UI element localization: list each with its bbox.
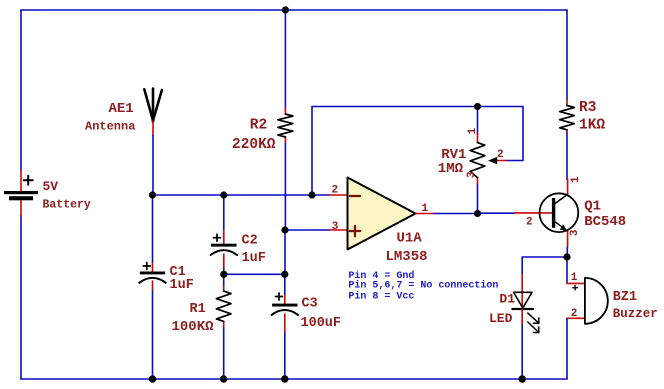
capacitor C3 wires: [284, 274, 286, 379]
resistor R1 pin stubs: [223, 286, 225, 327]
node C2 bottom junction: [220, 271, 227, 278]
op-amp pin 3 stub: [330, 229, 348, 231]
transistor Q1 emitter arrow: [560, 224, 567, 230]
svg-text:U1A: U1A: [397, 231, 423, 247]
svg-text:1uF: 1uF: [170, 278, 194, 293]
wire R2 column top: [284, 10, 286, 108]
transistor Q1 base bar: [552, 198, 555, 228]
svg-text:100uF: 100uF: [301, 316, 342, 331]
svg-text:1: 1: [467, 127, 479, 134]
Q1 emitter pin stub: [567, 231, 569, 247]
capacitor C3 plus: [276, 293, 283, 300]
node output junction: [474, 210, 481, 217]
node RV1 top junction: [474, 103, 481, 110]
op-amp pin 2 stub: [330, 194, 348, 196]
svg-text:C2: C2: [242, 234, 258, 249]
LED D1 emission arrow 1: [528, 313, 539, 323]
wire feedback horizontal y=106.5: [312, 106, 478, 108]
potentiometer RV1 zigzag: [470, 143, 485, 178]
BZ1 pin 2 stub: [567, 317, 585, 319]
resistor R1 zigzag: [216, 291, 231, 321]
node C3 top junction: [281, 271, 288, 278]
svg-text:Pin 5,6,7 = No connection: Pin 5,6,7 = No connection: [348, 280, 498, 292]
svg-text:3: 3: [332, 221, 339, 233]
wire noninverting input y=230: [285, 229, 330, 231]
transistor Q1 collector line: [555, 194, 568, 203]
wire node to Q1 base: [478, 212, 515, 214]
Q1 collector pin stub: [567, 179, 569, 194]
node R2/C3 pin3 junction: [281, 226, 288, 233]
svg-text:2: 2: [571, 308, 578, 320]
wire bottom rail: [21, 378, 567, 380]
wire output to node: [434, 213, 478, 215]
capacitor C2 symbol: [211, 244, 236, 247]
node emitter junction: [563, 253, 570, 260]
svg-text:2: 2: [526, 216, 533, 228]
svg-text:5V: 5V: [43, 179, 59, 194]
antenna AE1 symbol: [144, 89, 162, 122]
buzzer BZ1 body: [585, 278, 608, 324]
capacitor C1 plus: [143, 263, 150, 270]
resistor R2 pin stubs: [284, 108, 286, 143]
LED D1 cathode bar: [512, 308, 533, 310]
node LED bottom rail junction: [519, 375, 526, 382]
svg-text:Buzzer: Buzzer: [613, 307, 658, 321]
wire feedback vertical x=312: [311, 107, 313, 196]
BZ1 plus sign: [573, 286, 577, 290]
battery BT1 symbol: [4, 191, 38, 200]
capacitor C3 pin stubs: [284, 295, 286, 331]
LED D1 triangle: [514, 292, 532, 308]
svg-text:1MΩ: 1MΩ: [438, 161, 464, 177]
node C2 top junction: [220, 191, 227, 198]
op-amp minus symbol: [350, 195, 360, 197]
svg-text:LM358: LM358: [386, 249, 428, 265]
RV1 wires: [477, 107, 479, 214]
svg-text:3: 3: [569, 229, 581, 236]
svg-text:100KΩ: 100KΩ: [172, 319, 215, 335]
op-amp output pin stub: [416, 213, 435, 215]
RV1 pin stubs: [477, 133, 479, 183]
svg-text:1uF: 1uF: [242, 251, 266, 266]
svg-text:1: 1: [571, 272, 578, 284]
svg-text:R3: R3: [579, 100, 596, 116]
node C3 bottom rail junction: [281, 375, 288, 382]
node C1 bottom rail junction: [149, 375, 156, 382]
R3 pin stubs: [566, 100, 568, 133]
node top R2 junction: [282, 6, 289, 13]
wire antenna to node: [152, 135, 154, 195]
wire emitter to node: [566, 247, 568, 257]
resistor R3 zigzag: [560, 106, 575, 130]
capacitor C2 pin stubs: [223, 230, 225, 267]
wire RV1 top feed: [478, 107, 524, 161]
op-amp U1 triangle: [348, 178, 416, 250]
svg-text:Pin 8 = Vcc: Pin 8 = Vcc: [348, 291, 414, 303]
wire top rail: [21, 9, 567, 11]
battery plus sign: [24, 176, 33, 185]
svg-text:R2: R2: [250, 118, 267, 134]
node R1 bottom rail junction: [220, 375, 227, 382]
svg-text:BZ1: BZ1: [613, 290, 637, 305]
node feedback junction: [308, 191, 315, 198]
svg-text:C3: C3: [302, 296, 318, 311]
svg-text:1: 1: [570, 176, 582, 183]
node antenna/C1 junction: [149, 191, 156, 198]
D1 cathode pin stub: [521, 309, 523, 326]
svg-text:BC548: BC548: [584, 214, 626, 230]
wire node to LED branch: [522, 257, 567, 275]
wire C2/R1 to C3 y=274: [224, 273, 285, 275]
svg-text:AE1: AE1: [109, 101, 134, 117]
svg-text:1KΩ: 1KΩ: [579, 117, 605, 133]
wire D1 to bottom rail: [521, 326, 523, 380]
wire node to buzzer pin1: [566, 257, 568, 283]
capacitor C1 wires: [152, 195, 154, 379]
wire input bus y=195: [153, 194, 330, 196]
capacitor C2 wires: [223, 195, 225, 274]
battery BT1 pin stubs: [20, 171, 22, 216]
transistor Q1 emitter line: [555, 222, 567, 231]
antenna AE1 pin stub: [152, 122, 154, 136]
capacitor C1 pin stubs: [152, 263, 154, 290]
LED D1 emission arrow 2: [528, 322, 539, 333]
RV1 wiper arrow: [488, 157, 497, 164]
D1 anode pin stub: [521, 275, 523, 309]
wire buzzer pin2 to bottom rail: [566, 318, 568, 379]
transistor Q1 circle: [540, 193, 579, 232]
wire R3 to Q1 collector: [566, 133, 568, 179]
svg-text:3: 3: [466, 171, 478, 178]
svg-text:2: 2: [497, 149, 504, 161]
svg-text:LED: LED: [489, 311, 513, 326]
wire node 230 to node 274: [284, 230, 286, 274]
svg-text:D1: D1: [499, 291, 515, 306]
svg-text:R1: R1: [190, 302, 206, 317]
svg-text:Antenna: Antenna: [85, 120, 135, 134]
svg-text:Q1: Q1: [584, 199, 601, 215]
resistor R1 wires: [223, 274, 225, 379]
Q1 base pin stub: [515, 212, 553, 214]
RV1 wiper pin stub: [497, 160, 507, 162]
wire R2 down through crossing to C3: [284, 143, 286, 230]
capacitor C1 symbol: [140, 272, 165, 275]
svg-text:Battery: Battery: [43, 199, 91, 212]
wire R3 column top: [566, 10, 568, 100]
wire left rail upper: [20, 10, 22, 171]
resistor R2 zigzag: [278, 114, 293, 137]
svg-text:2: 2: [332, 185, 339, 197]
BZ1 pin 1 stub: [567, 282, 585, 284]
wire left rail lower: [20, 216, 22, 379]
capacitor C2 plus: [214, 234, 221, 241]
svg-text:220KΩ: 220KΩ: [232, 137, 276, 153]
op-amp plus symbol: [350, 226, 361, 237]
capacitor C3 symbol: [272, 304, 297, 307]
